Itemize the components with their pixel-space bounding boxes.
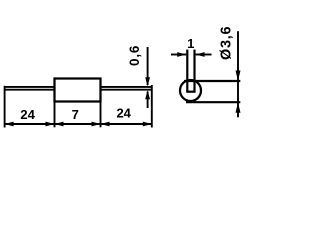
arrow left end pointing left xyxy=(5,122,14,127)
dimension line 0,6 upper xyxy=(147,47,149,85)
lead end view right line xyxy=(193,50,195,92)
body rectangle side view xyxy=(55,79,101,102)
svg-text:1: 1 xyxy=(187,36,194,51)
arrow 3,6 pointing down xyxy=(236,71,241,82)
arrow 3,6 pointing up xyxy=(236,102,241,113)
dimension line bottom xyxy=(5,123,152,125)
dimension line 1 right segment xyxy=(196,54,212,56)
lead end view bottom closing line xyxy=(186,91,195,93)
svg-text:Ø3,6: Ø3,6 xyxy=(219,26,235,60)
extension line left lead end xyxy=(4,86,6,128)
extension line circle top tangent xyxy=(184,80,240,82)
dimension line diameter 3,6 vertical xyxy=(237,31,239,117)
extension line circle bottom tangent xyxy=(186,101,240,103)
extension line right lead end xyxy=(151,85,153,128)
lead end view left line xyxy=(186,50,188,92)
svg-text:0,6: 0,6 xyxy=(127,45,142,66)
extension line body right edge xyxy=(100,102,102,128)
extension line body left edge xyxy=(54,102,56,128)
arrow 0,6 pointing up to lead bottom xyxy=(145,90,150,99)
wire right lead top line xyxy=(102,86,152,88)
wire left lead top line xyxy=(5,86,55,88)
arrow pair at body right edge xyxy=(92,122,101,127)
arrow pair at body left edge xyxy=(46,122,55,127)
svg-text:24: 24 xyxy=(20,107,35,122)
body circle end view xyxy=(180,80,201,101)
dimension line 1 left segment xyxy=(171,54,186,56)
wire right lead bottom line xyxy=(102,89,152,91)
arrow right end pointing right xyxy=(143,122,152,127)
wire left lead bottom line xyxy=(5,89,55,91)
dimension line 0,6 lower stem xyxy=(147,92,149,109)
arrow 1 pointing left xyxy=(196,52,205,57)
arrow 0,6 pointing down to lead top xyxy=(145,77,150,86)
svg-text:24: 24 xyxy=(116,106,131,121)
svg-text:7: 7 xyxy=(72,107,79,122)
arrow 1 pointing right xyxy=(177,52,186,57)
